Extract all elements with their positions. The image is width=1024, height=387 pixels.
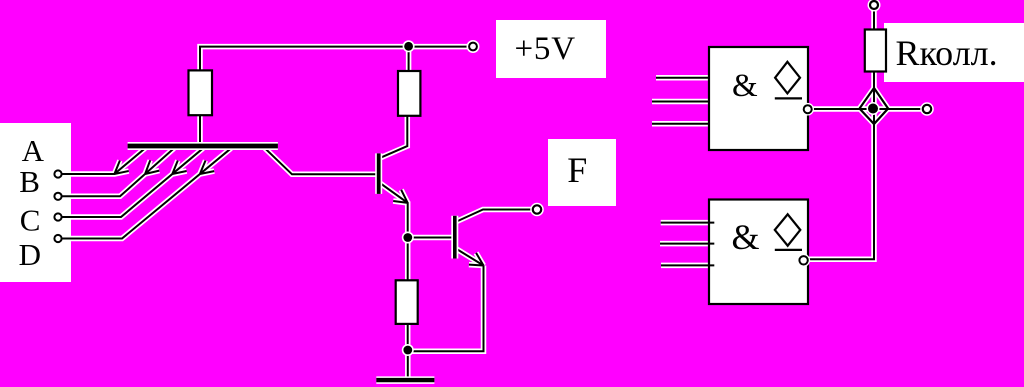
junction dot [867, 102, 880, 115]
DD1 output inversion bubble [801, 103, 814, 116]
top +5V terminal [868, 0, 881, 12]
logic gate DD2 box [709, 200, 808, 305]
F label box [548, 139, 616, 206]
output terminal F wire circle [530, 203, 544, 217]
DD2 output inversion bubble [797, 254, 810, 267]
svg-text:+5V: +5V [515, 31, 576, 67]
svg-text:B: B [19, 164, 40, 199]
resistor Rkoll [865, 30, 886, 72]
resistor R1 [189, 70, 213, 115]
multi-emitter transistor VT1 base bar [128, 142, 278, 150]
transistor VT2 base bar [375, 153, 382, 194]
wired-AND output terminal [920, 102, 934, 116]
svg-text:&: & [732, 68, 758, 104]
svg-text:Rколл.: Rколл. [896, 33, 998, 73]
DD1 open-collector diamond [775, 62, 800, 94]
+5V label box [496, 20, 606, 78]
node dot above ground [402, 344, 414, 356]
+5V terminal [467, 40, 480, 53]
DD2 diamond underline [775, 249, 802, 251]
DD2 open-collector diamond [775, 214, 801, 245]
transistor VT3 base bar [451, 216, 458, 259]
DD2 input line stubs [709, 223, 714, 266]
input terminal B [54, 193, 61, 200]
svg-text:F: F [567, 150, 587, 190]
input terminal C [54, 213, 61, 220]
input terminal A [54, 170, 61, 177]
resistor R3 [396, 280, 418, 324]
wired-AND junction diamond [860, 88, 889, 124]
svg-text:&: & [732, 217, 760, 257]
svg-text:A: A [22, 133, 45, 168]
Rkoll label box [884, 23, 1024, 82]
ground [376, 376, 434, 384]
logic gate DD1 box [709, 47, 808, 150]
svg-text:C: C [20, 203, 41, 238]
wired-AND junction diamond halo [860, 88, 889, 124]
input terminal D [54, 235, 61, 242]
resistor R2 [398, 71, 420, 116]
node A label box (inputs A B C D) [0, 123, 71, 282]
svg-text:D: D [19, 237, 41, 272]
node dot VT2 emitter [402, 232, 414, 244]
node dot on +5V rail [403, 40, 415, 52]
DD1 diamond underline [775, 97, 802, 99]
